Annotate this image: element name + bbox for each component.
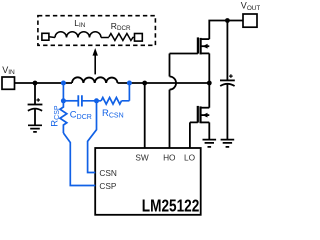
capacitor COUT plus sign [229,74,233,78]
svg-text:LM25122: LM25122 [142,196,200,216]
resistor RDCR [109,34,133,41]
node B junction (blue) [61,98,66,103]
arrow inductor model pointer [94,55,96,75]
node vout cap tap [225,18,230,23]
blue sense network [60,83,129,186]
wire SW [144,83,146,148]
wire RCSP to CSP pin [63,133,95,186]
capacitor CDCR [78,95,82,106]
svg-text:RCSN: RCSN [102,108,124,119]
capacitor COUT (polarized) [220,80,235,139]
wire CDCR to node [82,100,101,102]
wire CSP tap drop [62,83,64,101]
wire CDCR node to CSN pin [88,101,97,173]
svg-text:CSP: CSP [99,181,117,191]
node C junction (blue) [94,98,99,103]
svg-text:LO: LO [184,152,196,162]
wire HO gate lead [170,53,198,55]
wire LIN to RDCR [101,37,109,39]
svg-text:VOUT: VOUT [241,1,260,12]
wire RDCR to terminal [133,36,134,38]
inductor L1 main [72,77,118,83]
capacitor CIN (polarized) [28,105,43,126]
node SW tap [142,81,147,86]
terminal square right [135,34,143,42]
wire terminal to LIN [49,36,55,39]
wire Q1 source to switch node [208,53,210,83]
wire HO vertical with hop [169,54,171,149]
svg-text:HO: HO [163,152,176,162]
node CSN sense tap (blue) [127,81,132,86]
ground input [28,125,42,132]
wire Q1 drain to vout rail [209,21,243,40]
svg-text:LIN: LIN [74,18,85,29]
capacitor CIN plus sign [36,98,40,102]
wire LO gate lead [190,122,198,148]
transistor Q1 high-side [198,37,209,54]
inductor LIN [55,32,101,38]
wire RCSN to riser [122,83,130,101]
wire hop arc [170,77,177,90]
terminal square left [42,33,49,40]
wire Q2 source to ground [208,122,210,139]
node CSP sense tap (blue) [61,81,66,86]
node switch mid [207,81,212,86]
dashed box inductor model [38,16,155,46]
svg-text:SW: SW [135,152,149,162]
svg-text:VIN: VIN [2,65,15,76]
svg-text:RCSP: RCSP [49,105,60,127]
wire input cap drop [34,83,36,105]
svg-text:RDCR: RDCR [111,21,131,32]
svg-text:CDCR: CDCR [70,110,92,121]
wire vout cap drop [226,21,228,81]
transistor Q2 low-side [198,106,210,123]
ground Q2 source [203,140,217,147]
resistor RCSN [101,98,121,105]
node input cap junction [33,81,38,86]
node VIN source box [2,77,15,89]
IC U1 LM25122 box [95,148,201,215]
ground output cap [221,140,235,147]
node VOUT box [243,14,257,27]
resistor RCSP [60,101,67,133]
wire to CDCR [63,100,78,102]
svg-text:CSN: CSN [99,168,117,178]
wire main input rail y=83 [15,82,210,84]
wire switch node to Q2 drain [208,83,210,108]
